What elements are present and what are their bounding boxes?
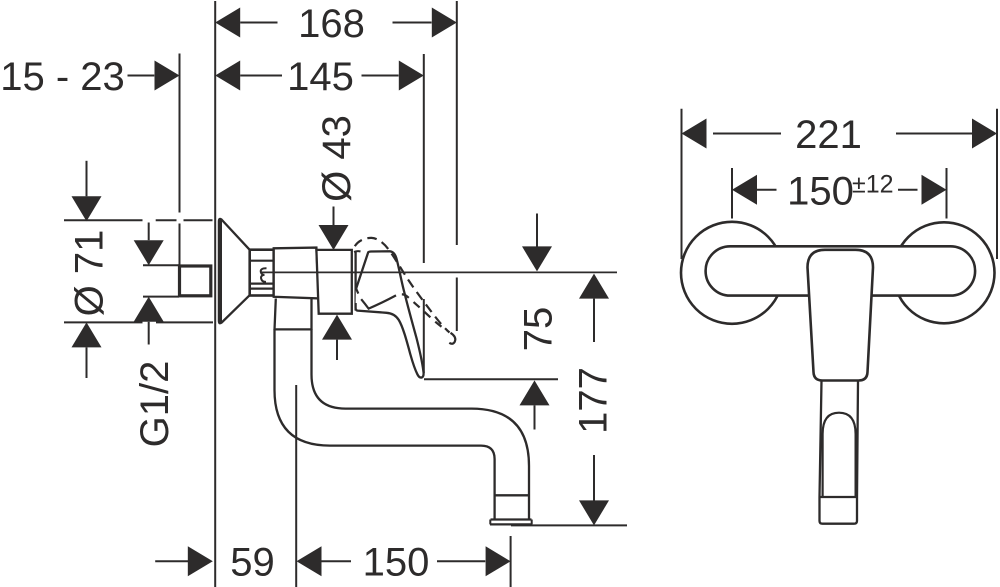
extension line outlet center (x=510.6) xyxy=(510,536,512,587)
dashed lever tip hook xyxy=(449,333,455,344)
dashed lever lower edge xyxy=(396,294,447,330)
lever grip front xyxy=(820,381,859,497)
spout down pipe xyxy=(275,298,312,330)
handle body front xyxy=(808,250,874,381)
lever grip arch xyxy=(823,413,856,497)
square wall fitting xyxy=(180,266,211,296)
dimension 221 xyxy=(682,113,998,157)
svg-text:59: 59 xyxy=(230,541,275,585)
svg-text:15 - 23: 15 - 23 xyxy=(0,55,125,99)
dimension 177 xyxy=(511,274,627,526)
dashed lever swung position xyxy=(355,238,450,333)
center axis line xyxy=(261,271,617,273)
grip bottom line xyxy=(820,496,858,498)
handle base cap xyxy=(354,252,356,311)
svg-text:75: 75 xyxy=(517,307,561,352)
svg-text:177: 177 xyxy=(572,367,616,434)
dimension 168 top xyxy=(215,2,457,46)
dimension G1/2 xyxy=(133,223,179,448)
dimension 150 +-12 xyxy=(732,169,947,213)
extension line wall face (x=215) xyxy=(214,1,216,587)
extension line solid lever tip (x=424) xyxy=(423,54,425,373)
svg-text:168: 168 xyxy=(298,2,365,46)
dimension diameter 71 xyxy=(64,161,213,378)
body capsule bar xyxy=(706,246,976,295)
svg-text:Ø 71: Ø 71 xyxy=(67,230,111,317)
svg-text:G1/2: G1/2 xyxy=(133,361,177,448)
extension line 150 right xyxy=(946,168,948,219)
escutcheon cone xyxy=(219,219,250,323)
dimension 145 xyxy=(215,55,424,99)
svg-text:150: 150 xyxy=(787,169,854,213)
dimension 75 xyxy=(424,214,561,430)
escutcheon wall edge thick xyxy=(219,220,222,322)
valve body xyxy=(316,250,351,314)
dimension diameter 43 xyxy=(315,115,359,360)
escutcheon circle right xyxy=(894,222,995,323)
svg-text:Ø 43: Ø 43 xyxy=(315,115,359,202)
svg-text:145: 145 xyxy=(287,55,354,99)
svg-text:221: 221 xyxy=(795,113,862,157)
body taper section xyxy=(274,248,319,299)
svg-text:±12: ±12 xyxy=(852,171,894,199)
escutcheon circle left xyxy=(681,222,783,324)
knurled nut xyxy=(250,250,274,296)
handle inner edge line xyxy=(361,295,396,308)
extension line 221 left xyxy=(681,109,683,259)
dimension 15 - 23 xyxy=(0,55,179,99)
extension line 150 left xyxy=(731,168,733,219)
extension line 221 right xyxy=(996,109,998,259)
spout S-pipe outline xyxy=(275,329,530,520)
handle lever solid xyxy=(356,251,424,377)
extension line dashed lever tip (x=457) xyxy=(456,1,458,331)
dashed lever base marks xyxy=(356,287,359,293)
spout aerator xyxy=(495,494,529,496)
dimension 59 xyxy=(155,541,275,585)
grip bottom cap xyxy=(820,497,858,524)
svg-text:150: 150 xyxy=(363,541,430,585)
extension line square left (x=180) xyxy=(179,54,181,265)
handle cap top arc xyxy=(354,250,361,253)
extension line spout drop center (x=296.5) xyxy=(295,385,297,587)
dimension 150 bottom xyxy=(297,541,511,585)
